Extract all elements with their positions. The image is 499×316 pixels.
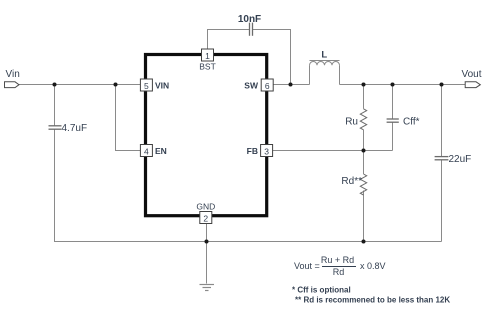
- wire EN branch: [116, 85, 141, 151]
- resistor Rd: [360, 174, 366, 195]
- svg-text:Rd**: Rd**: [341, 176, 362, 187]
- terminal Vin: [5, 82, 20, 88]
- svg-text:Vout: Vout: [462, 69, 482, 80]
- wire Ru top lead: [363, 85, 365, 109]
- junction at Ru top: [362, 83, 366, 87]
- junction at SW node: [289, 83, 293, 87]
- capacitor Cff: [387, 119, 399, 122]
- pin 5 VIN: [140, 79, 152, 91]
- svg-text:GND: GND: [196, 202, 215, 212]
- pin 6 SW: [261, 79, 273, 91]
- inductor L: [310, 61, 340, 85]
- svg-text:1: 1: [205, 51, 210, 61]
- svg-text:10nF: 10nF: [238, 14, 261, 25]
- wire 22uF bottom lead: [441, 160, 443, 242]
- pin 3 FB: [261, 145, 273, 157]
- svg-text:2: 2: [203, 213, 208, 223]
- capacitor 10nF: [250, 23, 253, 36]
- svg-text:Vout =: Vout =: [294, 261, 320, 271]
- ground: [200, 285, 215, 291]
- terminal Vout: [465, 82, 480, 88]
- junction at EN branch: [114, 83, 118, 87]
- formula fraction bar: [322, 266, 356, 268]
- junction at Cff top: [391, 83, 395, 87]
- svg-text:4.7uF: 4.7uF: [62, 123, 88, 134]
- junction at FB node: [362, 149, 366, 153]
- svg-text:3: 3: [264, 146, 269, 156]
- wire BST loop right: [253, 30, 291, 85]
- svg-text:EN: EN: [155, 146, 167, 156]
- wire Cff top lead: [392, 85, 394, 120]
- pin 2 GND: [200, 212, 212, 224]
- wire BST loop left: [208, 30, 250, 50]
- wire Rd top lead: [363, 151, 365, 175]
- pin 4 EN: [140, 145, 152, 157]
- wire inductor to Vout: [340, 84, 466, 86]
- junction at Vin / 4.7uF: [53, 83, 57, 87]
- pin 1 BST: [202, 49, 214, 61]
- wire Ru bottom lead: [363, 130, 365, 151]
- wire SW to node: [273, 84, 309, 86]
- IC body: [146, 55, 267, 216]
- capacitor 22uF: [435, 157, 449, 160]
- junction at ground bus: [205, 240, 209, 244]
- svg-text:Rd: Rd: [333, 267, 345, 277]
- wire Rd bottom lead: [363, 191, 365, 242]
- svg-text:x 0.8V: x 0.8V: [360, 261, 386, 271]
- wire FB to divider node: [273, 150, 393, 152]
- svg-text:VIN: VIN: [155, 80, 169, 90]
- svg-text:Cff*: Cff*: [403, 117, 420, 128]
- svg-text:6: 6: [265, 81, 270, 91]
- wire 22uF top lead: [441, 85, 443, 157]
- wire 4.7uF top lead: [54, 85, 56, 126]
- svg-text:FB: FB: [247, 146, 258, 156]
- svg-text:L: L: [321, 50, 327, 61]
- wire bus to ground symbol: [206, 242, 208, 284]
- svg-text:* Cff is optional: * Cff is optional: [292, 285, 351, 294]
- capacitor 4.7uF: [49, 126, 62, 129]
- svg-text:** Rd is recommened to be less: ** Rd is recommened to be less than 12K: [295, 296, 450, 305]
- wire 4.7uF bottom lead: [54, 129, 56, 241]
- svg-text:SW: SW: [244, 80, 259, 90]
- wire Cff bottom lead: [392, 122, 394, 150]
- svg-text:Ru + Rd: Ru + Rd: [321, 255, 354, 265]
- wire GND pin to bus: [206, 224, 208, 242]
- svg-text:BST: BST: [199, 62, 216, 72]
- svg-text:22uF: 22uF: [449, 154, 472, 165]
- resistor Ru: [360, 109, 366, 130]
- wire bottom ground bus: [54, 241, 442, 243]
- junction at 22uF top: [440, 83, 444, 87]
- svg-text:5: 5: [144, 81, 149, 91]
- wire Vin to VIN pin: [19, 84, 140, 86]
- svg-text:4: 4: [144, 146, 149, 156]
- svg-text:Ru: Ru: [345, 117, 358, 128]
- svg-text:Vin: Vin: [6, 69, 20, 80]
- junction at Rd bottom: [362, 240, 366, 244]
- formula Vout equation: [294, 255, 386, 277]
